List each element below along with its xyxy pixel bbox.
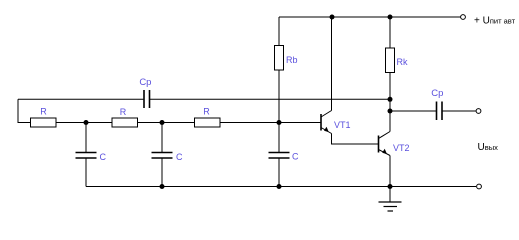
node C3 bottom <box>277 184 282 189</box>
svg-text:Cp: Cp <box>139 77 151 88</box>
wire VT1 emitter to VT2 base <box>332 134 379 145</box>
svg-text:Cp: Cp <box>431 88 443 99</box>
wire feedback right segment <box>150 98 391 100</box>
wire top supply rail <box>279 16 461 18</box>
resistor R3 <box>195 118 221 127</box>
output common terminal <box>477 184 482 189</box>
svg-text:Uвых: Uвых <box>478 142 499 153</box>
svg-text:+ Uпит авт: + Uпит авт <box>474 16 516 27</box>
wire Rb bottom lead to base node <box>278 70 280 123</box>
supply terminal <box>461 15 466 20</box>
wire ladder bottom rail <box>86 186 476 188</box>
wire left input drop <box>17 99 19 123</box>
capacitor Cp feedback <box>144 90 150 108</box>
wire feedback left segment <box>18 98 144 100</box>
svg-text:R: R <box>203 107 210 117</box>
resistor Rk <box>386 48 395 73</box>
svg-text:Rk: Rk <box>397 57 408 67</box>
wire Rk top lead <box>389 17 391 48</box>
resistor R2 <box>112 118 138 127</box>
transistor VT2 <box>379 132 391 156</box>
svg-text:R: R <box>40 107 47 117</box>
node C1 top <box>84 120 89 125</box>
resistor Rb <box>275 46 284 71</box>
wire VT1 collector <box>331 17 333 111</box>
svg-text:Rb: Rb <box>286 55 298 65</box>
capacitor C1 <box>76 123 97 187</box>
node C2 bottom <box>160 184 165 189</box>
capacitor C3 <box>269 123 290 187</box>
capacitor Cp output <box>437 102 443 121</box>
transistor VT1 <box>321 111 332 134</box>
wire Rk bottom lead to VT2 collector <box>389 73 391 132</box>
node VT2 emitter on bottom rail <box>388 184 393 189</box>
svg-text:C: C <box>100 152 107 162</box>
wire ladder row seg1 <box>18 122 31 124</box>
wire ladder row seg3 <box>138 122 196 124</box>
wire ladder row seg4 to VT1 base <box>220 122 321 124</box>
ground <box>379 202 402 211</box>
node feedback at VT2 collector <box>388 97 393 102</box>
svg-text:C: C <box>176 152 183 162</box>
node C3 top / VT1 base node <box>277 120 282 125</box>
node VT1 collector on supply rail <box>330 15 335 20</box>
wire output left segment <box>390 110 436 112</box>
svg-text:VT2: VT2 <box>393 143 410 153</box>
svg-text:VT1: VT1 <box>334 120 351 130</box>
output terminal <box>476 109 481 114</box>
svg-text:C: C <box>292 152 299 162</box>
node C2 top <box>160 120 165 125</box>
capacitor C2 <box>152 123 173 187</box>
wire VT2 emitter drop <box>389 156 391 187</box>
node VT2 collector on supply rail <box>388 15 393 20</box>
wire output right segment <box>442 110 476 112</box>
wire ground stub <box>389 187 391 203</box>
svg-text:R: R <box>120 107 127 117</box>
wire Rb top lead <box>278 17 280 46</box>
wire ladder row seg2 <box>56 122 113 124</box>
resistor R1 <box>31 118 57 127</box>
node output tap <box>388 109 393 114</box>
